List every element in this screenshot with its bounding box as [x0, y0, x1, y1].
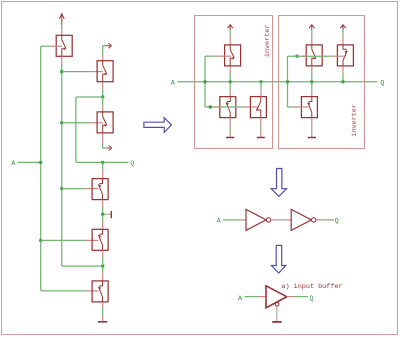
svg-text:inverter: inverter — [351, 104, 359, 137]
junction net2 / M4 gate — [60, 187, 63, 190]
transistor M2 (PMOS switch box) — [97, 61, 113, 82]
wire between inverters — [279, 219, 284, 221]
pin M1 drain — [61, 30, 63, 36]
svg-text:a) input buffer: a) input buffer — [281, 283, 342, 291]
wire A row to N3 drain — [311, 82, 313, 90]
pin N3 source — [311, 118, 313, 127]
pin M4 gate — [85, 188, 98, 190]
pin P2b drain — [342, 35, 344, 45]
bulk tap symbol at M4-M5 node — [104, 211, 111, 218]
transistor M3 (PMOS switch box) — [97, 112, 113, 133]
transistor M4 (NMOS switch box) — [92, 179, 108, 200]
junction M4-M5 node — [101, 213, 104, 216]
wire A to inverter gate 1 — [223, 219, 239, 221]
pin U1 input — [239, 219, 247, 221]
wire Q net vertical — [75, 97, 77, 162]
wire VDD to P1 — [229, 30, 231, 35]
wire M6 source to ground — [102, 309, 104, 316]
VDD arrow (supply) above M1 — [59, 14, 64, 26]
wire net2 to node between M5 M6 — [62, 265, 103, 267]
pin P2a gate — [302, 55, 306, 57]
pin M5 gate — [85, 239, 98, 241]
wire M5 source to node2 — [102, 258, 104, 266]
pin P1 drain — [229, 35, 231, 45]
wire M2 source to node Q1 — [102, 89, 104, 97]
pin M1 gate — [49, 45, 62, 47]
wire VDD to P2a — [311, 30, 313, 35]
transistor M1 (PMOS switch box) — [56, 35, 72, 56]
junction on N1 gate wire — [209, 105, 212, 108]
ground N3 — [308, 130, 316, 137]
inverter gate 2 bubble — [312, 218, 316, 222]
wire node to M5 drain — [102, 214, 104, 222]
wire net2 to M3 gate — [62, 122, 90, 124]
wire Q row to M4 drain — [102, 162, 104, 170]
ground N1 — [226, 130, 234, 137]
junction net2 / M3 gate — [60, 121, 63, 124]
VDD arrow inverter2 P2b — [340, 25, 345, 31]
wire gate to N3 gate — [288, 106, 293, 108]
wire net2 to M4 gate — [62, 188, 85, 190]
pin M4 source — [102, 200, 104, 207]
VDD arrow inverter1 — [228, 25, 233, 31]
pin M3 source — [102, 133, 104, 143]
pin P2b source — [342, 66, 344, 73]
bulk arrow of M2 (to VDD rail) — [106, 43, 111, 48]
wire A to M6 gate — [41, 290, 85, 292]
wire N1 source to ground — [229, 126, 231, 130]
wire N3 source to ground — [311, 126, 313, 130]
pin M2 source — [102, 82, 104, 89]
pin P1 gate — [215, 55, 231, 57]
svg-text:Q: Q — [380, 79, 384, 87]
pin M1 source (bottom) — [61, 56, 63, 63]
pin N2 drain — [260, 89, 262, 96]
junction gate corner inverter2 — [295, 55, 298, 58]
wire net2 to M2 gate — [62, 71, 90, 73]
pin U3 input — [258, 296, 266, 298]
pin M5 drain — [102, 222, 104, 229]
pin M6 gate — [85, 290, 98, 292]
junction gate net on A row (inv2) — [286, 80, 289, 83]
buffer triangle U3 — [266, 286, 287, 308]
wire VDD to M1 drain — [61, 25, 63, 30]
wire gate net inverter2 vertical — [287, 56, 289, 107]
pin U1 output — [271, 219, 279, 221]
junction P2b on A row — [341, 80, 344, 83]
wire net2 vertical — [61, 63, 63, 266]
pin M6 source — [102, 302, 104, 309]
pin N1 gate — [213, 106, 219, 108]
pin N1 drain — [229, 89, 231, 96]
pin M5 source — [102, 250, 104, 257]
pin P1 source — [229, 66, 231, 73]
VDD arrow inverter2 P2a — [309, 25, 314, 31]
pin M4 drain — [102, 170, 104, 178]
wire A label to junction — [18, 161, 42, 163]
pin M3 gate — [90, 122, 103, 124]
pin P2a drain — [311, 35, 313, 45]
ground N2 — [257, 130, 265, 137]
ground (left circuit) — [98, 316, 107, 321]
transistor P2a (PMOS inverter2) — [306, 45, 322, 66]
wire N2 source to ground — [260, 126, 262, 130]
wire gate net to P1 gate — [205, 55, 215, 57]
pin P2b gate — [330, 55, 343, 57]
junction node Q1 — [101, 95, 104, 98]
wire VDD to P2b — [342, 30, 344, 35]
junction P1/N1 on A row — [229, 80, 232, 83]
inverter 1 frame — [195, 16, 273, 149]
blue arrow right — [144, 118, 172, 133]
wire A to buffer — [245, 296, 259, 298]
inverter gate 1 bubble — [266, 218, 270, 222]
buffer enable bubble — [275, 302, 279, 306]
junction net2 / M2 gate — [60, 70, 63, 73]
wire node Q1 left — [76, 96, 103, 98]
inverter 2 frame — [279, 16, 365, 149]
wire inverter 2 to Q — [324, 219, 334, 221]
pin N2 source — [260, 118, 262, 127]
wire node Q1 to M3 drain — [102, 97, 104, 105]
wire gate to P2a gate — [288, 55, 331, 57]
transistor M5 (NMOS switch box) — [92, 229, 108, 250]
svg-text:Q: Q — [309, 295, 313, 303]
transistor N1 (NMOS inverter1) — [220, 97, 236, 118]
pin M2 gate — [90, 71, 103, 73]
junction gate net on A row (inv1) — [203, 80, 206, 83]
junction M5-M6 node — [101, 264, 104, 267]
wire P2b source to A row — [342, 73, 344, 82]
wire A row to N2 drain — [260, 82, 262, 90]
pin U2 input — [284, 219, 292, 221]
wire A net to M1 gate — [41, 45, 50, 47]
junction N2 top on A row — [259, 80, 262, 83]
junction Q row — [101, 161, 104, 164]
transistor N2 (NMOS inverter1) — [250, 97, 266, 118]
junction A row — [39, 161, 42, 164]
wire M2 drain up — [103, 46, 106, 54]
transistor N3 (NMOS inverter2) — [301, 97, 317, 118]
wire M3 source down — [103, 143, 107, 148]
transistor P2b (PMOS inverter2) — [337, 45, 353, 66]
svg-text:Q: Q — [130, 160, 134, 168]
blue arrow down 2 — [271, 245, 285, 273]
pin M6 drain — [102, 273, 104, 281]
pin N3 gate — [292, 106, 309, 108]
wire gate row inverter1 — [205, 106, 244, 108]
blue arrow down 1 — [271, 169, 286, 197]
pin M3 drain — [102, 105, 104, 112]
svg-text:Q: Q — [335, 217, 339, 225]
svg-text:inverter: inverter — [264, 24, 272, 57]
junction A to M5 gate — [39, 239, 42, 242]
ground (buffer) — [272, 321, 282, 323]
pin N1 source — [229, 118, 231, 127]
wire M4 source to node — [102, 207, 104, 214]
wire A row to N1 drain — [229, 82, 231, 90]
transistor P1 (PMOS inverter1) — [225, 45, 241, 66]
wire buffer to Q — [295, 296, 308, 298]
wire gate net inverter1 vertical — [204, 56, 206, 107]
pin U2 output — [316, 219, 324, 221]
pin U3 output — [287, 296, 295, 298]
pin N2 gate — [244, 106, 258, 108]
pin N3 drain — [311, 89, 313, 96]
pin M2 drain — [102, 54, 104, 61]
wire A to M5 gate — [41, 239, 85, 241]
bulk arrow of M3 — [106, 145, 111, 150]
wire node2 to M6 drain — [102, 266, 104, 273]
transistor M6 (NMOS switch box) — [92, 281, 108, 302]
wire A row across both inverters — [177, 81, 377, 83]
junction P2a on A row — [310, 80, 313, 83]
wire bubble to ground — [276, 306, 278, 321]
inverter gate 1 triangle U1 — [246, 209, 266, 230]
wire Q row — [76, 161, 129, 163]
inverter gate 2 triangle U2 — [291, 209, 311, 230]
wire P2a source to A row — [311, 73, 313, 82]
wire A net vertical — [40, 46, 42, 291]
wire P1 source to A row — [229, 73, 231, 82]
pin P2a source — [311, 66, 313, 73]
